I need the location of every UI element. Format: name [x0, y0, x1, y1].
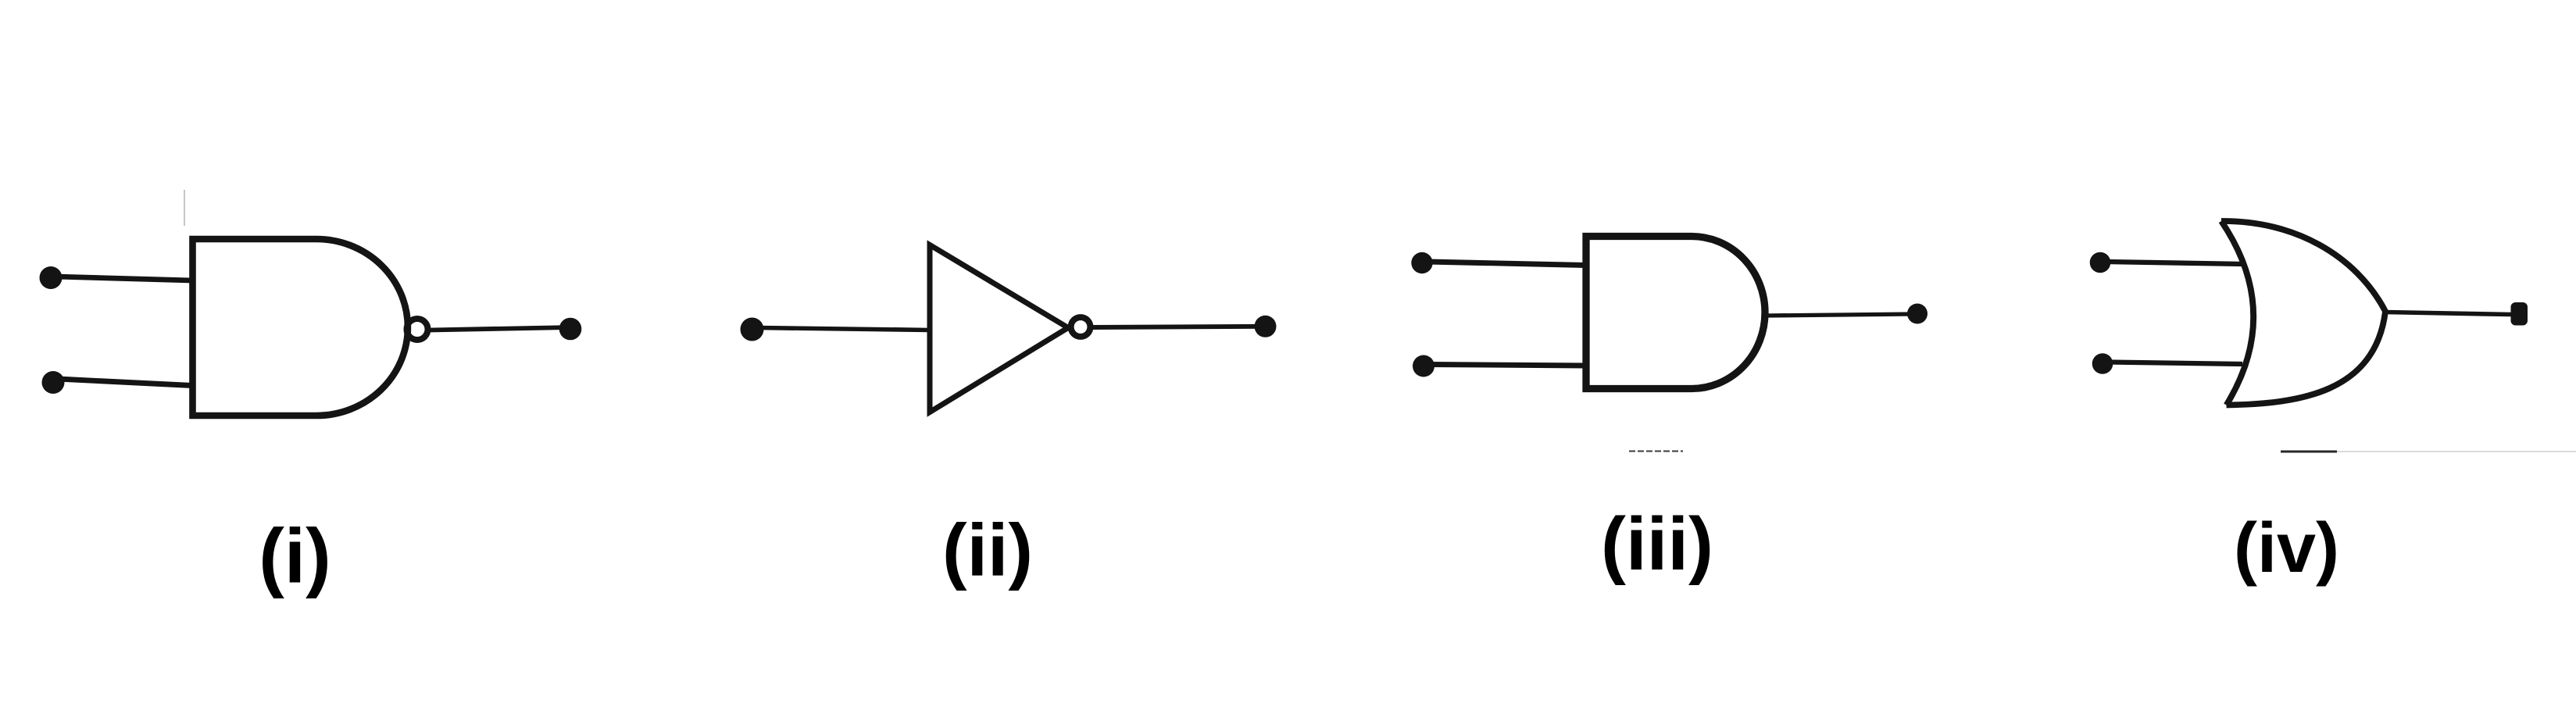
- svg-text:(iii): (iii): [1601, 502, 1713, 586]
- wire input A to OR (iv): [2106, 262, 2244, 264]
- input terminal dot A of gate (iii): [1411, 252, 1432, 273]
- scan artifact line under gate (iv) faint part: [2337, 451, 2576, 452]
- svg-text:(i): (i): [259, 513, 331, 599]
- NOT gate triangle (ii): [930, 245, 1068, 412]
- output terminal dot of gate (i): [559, 318, 582, 341]
- input terminal dot A of gate (i): [40, 266, 63, 289]
- wire input B to AND (iii): [1429, 365, 1586, 366]
- NAND gate body (i): [193, 239, 408, 416]
- svg-text:(iv): (iv): [2234, 509, 2339, 587]
- wire input to NOT (ii): [758, 328, 930, 330]
- wire AND (iii) output: [1766, 314, 1912, 316]
- wire input A to NAND (i): [55, 277, 192, 280]
- input terminal dot B of gate (iv): [2092, 353, 2113, 374]
- output terminal dot of gate (ii): [1255, 316, 1277, 337]
- scan artifact faint vertical line above gate (i): [184, 190, 185, 226]
- AND gate body (iii): [1586, 237, 1765, 389]
- wire input A to AND (iii): [1427, 262, 1586, 266]
- wire input B to NAND (i): [58, 379, 192, 386]
- NOT inversion bubble (ii): [1071, 317, 1091, 337]
- output terminal dot of gate (iv): [2511, 302, 2528, 326]
- input terminal dot B of gate (i): [42, 371, 65, 394]
- scan artifact line under gate (iv) dark part: [2281, 451, 2337, 453]
- wire OR (iv) output: [2385, 312, 2511, 315]
- output terminal dot of gate (iii): [1907, 304, 1928, 324]
- input terminal dot A of gate (iv): [2090, 252, 2111, 273]
- wire NOT (ii) output: [1092, 327, 1263, 327]
- wire input B to OR (iv): [2108, 362, 2242, 365]
- svg-text:(ii): (ii): [942, 509, 1033, 592]
- OR gate body (iv): [2221, 221, 2385, 405]
- NAND inversion bubble (i): [407, 319, 428, 340]
- input terminal dot B of gate (iii): [1413, 355, 1434, 377]
- input terminal dot of gate (ii): [741, 318, 764, 341]
- wire NAND (i) output: [430, 327, 571, 330]
- scan artifact dashed line under gate (iii): [1629, 451, 1683, 452]
